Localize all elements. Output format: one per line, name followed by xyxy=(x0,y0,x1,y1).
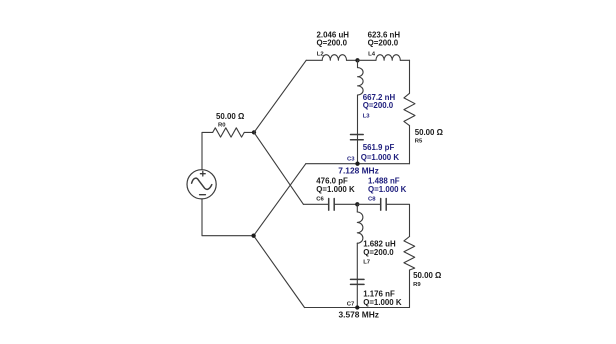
voltage source V1 xyxy=(187,170,216,199)
svg-text:C3: C3 xyxy=(347,156,355,162)
label 3.578 MHz xyxy=(339,310,380,320)
label R5 values xyxy=(415,128,443,144)
label R0 values xyxy=(216,112,244,128)
svg-text:Q=200.0: Q=200.0 xyxy=(363,248,394,257)
svg-text:R5: R5 xyxy=(415,138,423,144)
svg-text:R0: R0 xyxy=(218,123,226,129)
wire R0 to node A xyxy=(244,131,254,133)
resistor R0 xyxy=(213,128,245,137)
label R9 values xyxy=(413,271,441,288)
svg-text:476.0 pF: 476.0 pF xyxy=(316,176,348,185)
svg-text:L4: L4 xyxy=(368,52,376,58)
capacitor C3 xyxy=(351,135,364,140)
wire L3 to C3 xyxy=(357,95,359,135)
svg-text:1.488 nF: 1.488 nF xyxy=(368,176,400,185)
wire source top to R0 xyxy=(202,132,213,169)
capacitor C8 xyxy=(381,199,387,211)
label C7 values xyxy=(347,290,402,308)
svg-text:561.9 pF: 561.9 pF xyxy=(363,143,395,152)
label C8 values xyxy=(368,176,407,202)
wire C3 to rail xyxy=(357,140,359,164)
svg-text:C7: C7 xyxy=(347,301,355,307)
label L4 values xyxy=(368,30,401,57)
node C3 rail junction xyxy=(355,162,359,166)
label 7.128 MHz xyxy=(338,165,379,175)
svg-text:Q=1.000 K: Q=1.000 K xyxy=(361,153,400,162)
label C3 values xyxy=(347,143,399,162)
rail 3.578 MHz xyxy=(305,307,410,309)
svg-text:L7: L7 xyxy=(363,259,371,265)
capacitor C6 xyxy=(329,199,335,211)
label L2 values xyxy=(317,30,350,57)
svg-text:L2: L2 xyxy=(317,52,325,58)
wire node A to top branch xyxy=(254,60,306,132)
wire node A to bottom branch (diagonal down) xyxy=(254,132,303,204)
node B xyxy=(251,234,255,238)
inductor L3 xyxy=(358,60,364,95)
svg-text:Q=200.0: Q=200.0 xyxy=(368,38,399,47)
label C6 values xyxy=(316,176,355,202)
node A xyxy=(252,130,256,134)
svg-text:Q=200.0: Q=200.0 xyxy=(363,101,394,110)
svg-text:R9: R9 xyxy=(413,282,421,288)
node L2-L4 junction xyxy=(355,58,359,62)
svg-text:L3: L3 xyxy=(363,113,371,119)
rail 7.128 MHz xyxy=(306,163,410,165)
wire source bottom to node B xyxy=(202,199,254,236)
wire R9 to bottom rail xyxy=(409,270,411,308)
svg-text:3.578 MHz: 3.578 MHz xyxy=(339,310,380,320)
node C7 rail junction xyxy=(355,305,359,309)
wire L7 to C7 xyxy=(356,243,358,279)
svg-text:Q=1.000 K: Q=1.000 K xyxy=(363,298,402,307)
wire C8 to R9 corner xyxy=(386,204,409,236)
wire R5 to rail xyxy=(409,126,411,164)
svg-text:7.128 MHz: 7.128 MHz xyxy=(338,165,379,175)
wire junction to C8 xyxy=(357,203,380,205)
wire C6 to junction xyxy=(334,203,357,205)
svg-text:50.00 Ω: 50.00 Ω xyxy=(415,128,443,137)
wire node B to rail (diagonal up) xyxy=(254,164,306,236)
wire node B to bottom rail (diagonal down) xyxy=(254,236,305,308)
label L7 values xyxy=(363,240,396,266)
svg-text:50.00 Ω: 50.00 Ω xyxy=(216,112,244,121)
resistor R5 xyxy=(404,93,415,125)
wire L4 corner down to R5 xyxy=(409,60,411,93)
svg-text:50.00 Ω: 50.00 Ω xyxy=(413,271,441,280)
capacitor C7 xyxy=(351,279,365,284)
inductor L2 xyxy=(322,55,357,61)
svg-text:Q=1.000 K: Q=1.000 K xyxy=(368,185,407,194)
inductor L7 xyxy=(357,204,363,243)
inductor L4 xyxy=(376,55,410,61)
svg-text:C6: C6 xyxy=(316,196,324,202)
node C6-C8 junction xyxy=(355,202,359,206)
svg-text:C8: C8 xyxy=(368,196,376,202)
wire bottom branch lead xyxy=(303,203,328,205)
label L3 values xyxy=(363,93,396,119)
wire C7 to bottom rail xyxy=(356,284,358,307)
svg-text:Q=1.000 K: Q=1.000 K xyxy=(316,185,355,194)
wire junction to L4 xyxy=(358,59,377,61)
resistor R9 xyxy=(404,237,415,271)
svg-text:Q=200.0: Q=200.0 xyxy=(317,38,348,47)
wire top branch lead xyxy=(306,59,322,61)
